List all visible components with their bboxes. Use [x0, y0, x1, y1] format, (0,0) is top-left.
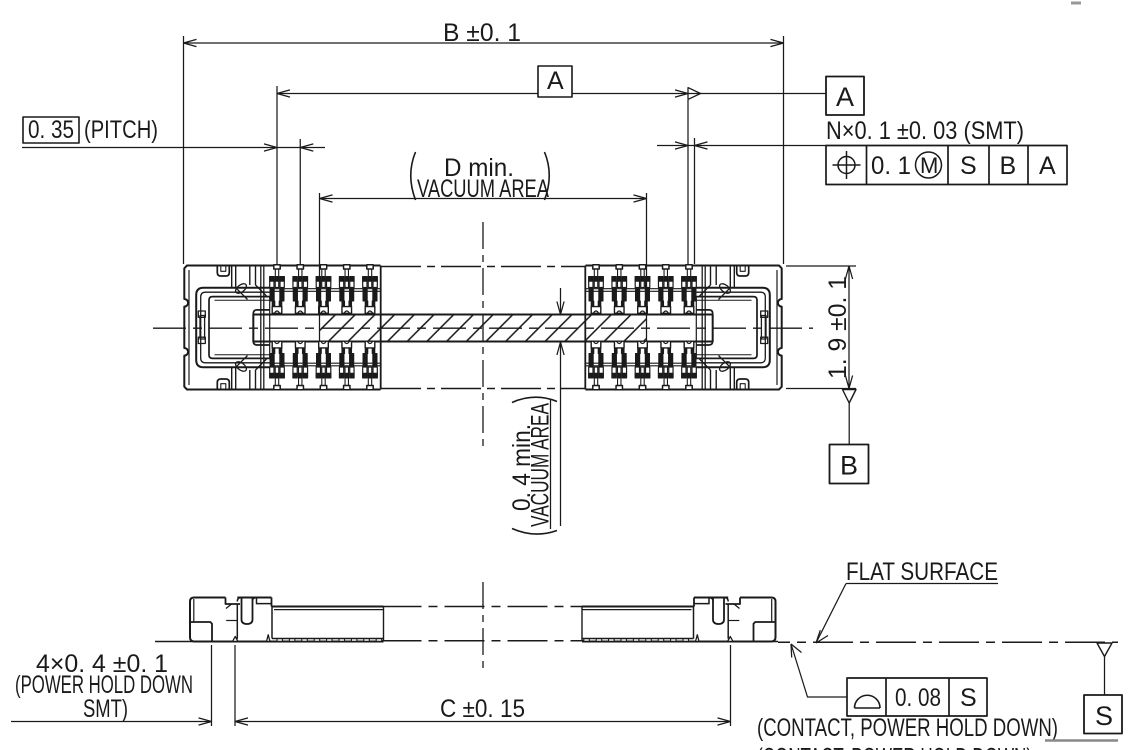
boxed label A on dim line	[538, 66, 572, 97]
svg-text:(CONTACT, POWER HOLD DOWN): (CONTACT, POWER HOLD DOWN)	[757, 714, 1058, 742]
svg-text:A: A	[836, 82, 854, 112]
tiny top-right artifact	[1071, 2, 1081, 5]
pcb surface baseline	[155, 607, 1118, 643]
svg-text:M: M	[920, 153, 938, 178]
center tongue outline	[253, 315, 712, 342]
connector body right end section (mirror)	[585, 266, 781, 390]
svg-text:N×0. 1 ±0. 03 (SMT): N×0. 1 ±0. 03 (SMT)	[826, 117, 1024, 145]
datum box B	[830, 445, 869, 484]
M circle modifier	[916, 152, 942, 178]
position symbol	[833, 151, 861, 179]
body continuation dash-dot top edge	[381, 266, 585, 268]
top row contacts left	[270, 265, 378, 314]
svg-text:B ±0. 1: B ±0. 1	[443, 19, 521, 47]
svg-text:1. 9 ±0. 1: 1. 9 ±0. 1	[824, 276, 852, 379]
svg-text:(CONTACT, POWER HOLD DOWN): (CONTACT, POWER HOLD DOWN)	[757, 744, 1032, 750]
svg-text:B: B	[1000, 152, 1017, 180]
svg-text:0. 1: 0. 1	[871, 152, 911, 180]
svg-text:FLAT SURFACE: FLAT SURFACE	[846, 558, 998, 586]
vertical centerline of top view	[482, 222, 484, 450]
datum target box A	[826, 77, 864, 116]
flatness (profile) frame	[847, 678, 987, 716]
datum feature triangle B	[843, 390, 857, 404]
bottom row contacts (mirror)	[270, 341, 697, 390]
datum feature triangle S	[1097, 643, 1112, 657]
top row contacts right	[589, 265, 697, 314]
svg-text:0. 08: 0. 08	[895, 684, 941, 712]
svg-text:S: S	[960, 684, 977, 712]
vacuum area hatch	[320, 315, 647, 342]
svg-text:A: A	[547, 67, 564, 95]
rotated open parenthesis	[512, 529, 557, 535]
svg-text:C ±0. 15: C ±0. 15	[440, 695, 525, 723]
rotated close parenthesis	[512, 397, 557, 402]
right big parenthesis	[545, 152, 550, 200]
dim B line	[184, 36, 784, 264]
svg-text:VACUUM AREA: VACUUM AREA	[527, 403, 555, 527]
connector body left end section	[184, 266, 380, 390]
svg-text:A: A	[1039, 152, 1056, 180]
svg-text:SMT): SMT)	[83, 695, 128, 723]
left big parenthesis	[411, 152, 416, 200]
profile-of-surface symbol	[855, 695, 881, 708]
svg-text:0. 35: 0. 35	[28, 116, 74, 144]
position tolerance frame	[826, 146, 1067, 185]
svg-text:S: S	[960, 152, 977, 180]
side view right half (mirror)	[582, 598, 776, 642]
svg-text:(PITCH): (PITCH)	[84, 116, 158, 144]
body continuation dash-dot bottom edge	[381, 388, 585, 390]
svg-text:S: S	[1095, 701, 1113, 731]
horizontal centerline of top view	[153, 327, 813, 329]
side view vertical centerline	[482, 582, 484, 668]
boxed 0.35	[23, 117, 79, 143]
svg-text:VACUUM AREA: VACUUM AREA	[417, 175, 549, 203]
side view left half	[190, 598, 384, 642]
svg-text:B: B	[840, 451, 858, 481]
